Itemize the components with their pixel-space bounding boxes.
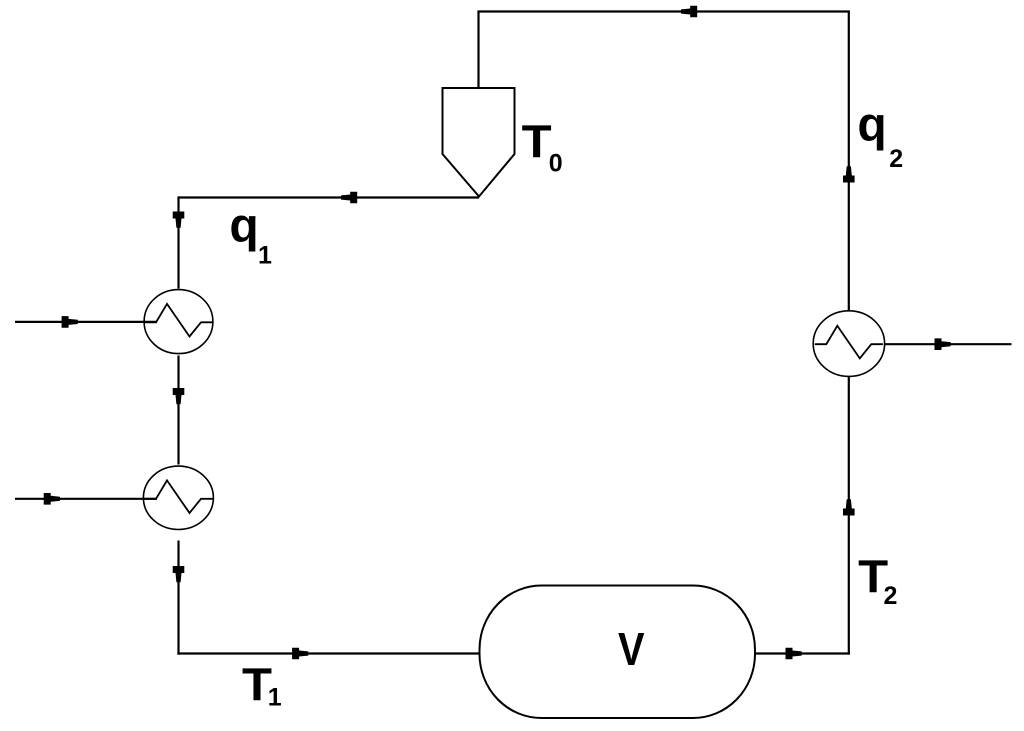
svg-text:T: T — [522, 116, 552, 168]
svg-text:0: 0 — [549, 150, 563, 178]
svg-text:1: 1 — [268, 684, 282, 712]
svg-text:2: 2 — [889, 145, 903, 173]
svg-text:q: q — [857, 99, 886, 152]
svg-text:V: V — [618, 623, 645, 675]
svg-text:2: 2 — [884, 582, 898, 610]
svg-text:q: q — [229, 199, 258, 252]
svg-text:1: 1 — [258, 242, 272, 270]
